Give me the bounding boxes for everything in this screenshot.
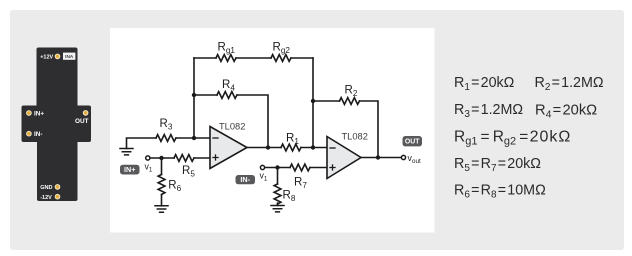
resistor R5 (174, 155, 194, 162)
svg-text:GND: GND (40, 185, 52, 191)
terminal v1+ (146, 156, 150, 160)
pad +12V (55, 54, 61, 60)
resistor Rg2 (271, 55, 291, 62)
badge IN+ (120, 165, 140, 175)
pad -12V (55, 194, 61, 200)
junction node v1- / R7 / R8 (275, 165, 279, 169)
wire R6 (161, 158, 163, 206)
junction node U1 inverting input (192, 136, 196, 140)
wire left vertical (193, 58, 195, 138)
schematic labels (145, 42, 422, 204)
ground G1 (120, 149, 133, 155)
svg-text:+12V: +12V (40, 55, 53, 61)
U2 plus (330, 165, 335, 170)
U1 minus (213, 137, 218, 139)
junction node U2 inverting input (311, 145, 315, 149)
pad OUT (83, 110, 89, 116)
junction node U1 output / R4 (266, 145, 270, 149)
junction node Rg1/R4 left (192, 93, 196, 97)
ground G2 (155, 206, 168, 212)
resistor R8 (274, 184, 281, 204)
resistor Rg1 (216, 55, 236, 62)
svg-text:IN+: IN+ (124, 165, 135, 174)
svg-text:R4 = 20kΩ: R4 = 20kΩ (535, 103, 597, 121)
svg-text:-12V: -12V (40, 195, 52, 201)
junction node Rg2 / R2 (311, 99, 315, 103)
resistor R3 (156, 135, 176, 142)
wire top feedback line (194, 57, 313, 59)
wire R4 line (194, 95, 268, 148)
svg-text:IN-: IN- (34, 131, 43, 138)
svg-text:OUT: OUT (405, 139, 420, 146)
resistor R7 (290, 164, 310, 171)
svg-text:R1 = 20kΩ: R1 = 20kΩ (454, 75, 515, 93)
pad IN+ (26, 110, 32, 116)
resistor R6 (158, 175, 165, 195)
wire R8 (277, 168, 279, 206)
badge OUT (403, 136, 423, 146)
resistor R2 (340, 98, 360, 105)
white schematic panel (110, 28, 435, 233)
wire U2 output (361, 157, 401, 159)
svg-text:IN-: IN- (240, 175, 250, 184)
svg-text:OUT: OUT (75, 118, 89, 125)
resistor R1 (281, 144, 301, 151)
wire R3 line (127, 138, 211, 149)
INA box (63, 53, 75, 60)
ground G3 (271, 206, 284, 212)
module body middle (22, 106, 92, 143)
wire right vertical (312, 58, 314, 148)
wire R7 line (264, 167, 327, 169)
wire R2 line (313, 101, 378, 158)
resistor R4 (217, 92, 237, 99)
module body bottom (37, 140, 78, 201)
svg-text:TL082: TL082 (219, 121, 245, 131)
pad GND (55, 184, 61, 190)
wire R5 line (150, 157, 210, 159)
junction node v1+ / R5 / R6 (159, 156, 163, 160)
terminal v1- (260, 165, 264, 169)
U2 minus (330, 147, 335, 149)
module body top (37, 48, 78, 110)
pad IN- (26, 131, 32, 137)
svg-text:IN+: IN+ (34, 110, 44, 117)
op-amp U1 (210, 127, 247, 169)
svg-text:TL082: TL082 (342, 131, 368, 141)
terminal vout (401, 155, 405, 159)
op-amp U2 (327, 137, 361, 179)
badge IN- (236, 175, 256, 184)
junction node U2 output / R2 (376, 155, 380, 159)
wire U1 output to U2 minus (247, 147, 327, 149)
U1 plus (213, 155, 218, 160)
svg-text:INA: INA (65, 54, 74, 59)
